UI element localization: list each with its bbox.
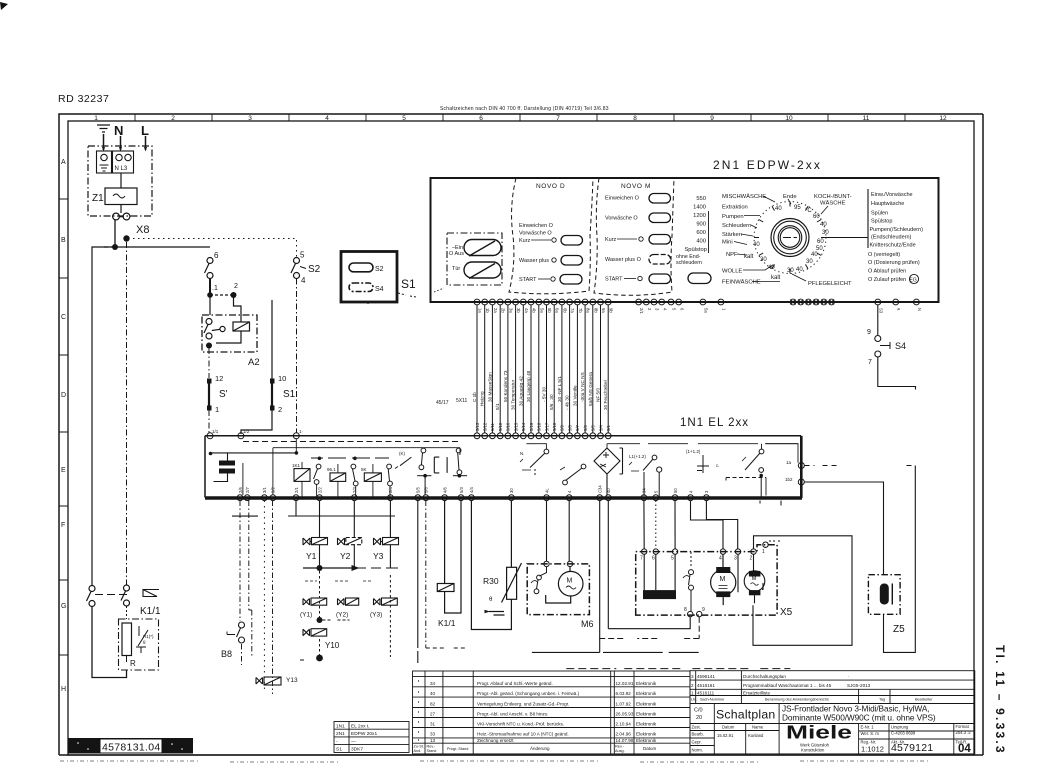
svg-text:2N1 EDPW-2xx: 2N1 EDPW-2xx	[713, 158, 822, 172]
wire Z1 to plug	[120, 205, 122, 214]
pin 5a	[700, 299, 706, 305]
svg-text:S2: S2	[308, 264, 321, 275]
X5 loop right	[753, 536, 852, 646]
svg-text:Wasser plus O: Wasser plus O	[605, 257, 642, 263]
EL bottom terminal row	[237, 495, 709, 501]
wire drop 643.9	[643, 501, 645, 550]
left row ticks	[59, 199, 68, 655]
svg-text:1.07.92: 1.07.92	[616, 701, 632, 706]
NOVO M row START + button	[605, 274, 671, 284]
svg-text:2: 2	[691, 683, 694, 688]
svg-text:a: a	[896, 308, 901, 311]
svg-text:Format: Format	[956, 724, 970, 729]
heater resistor body	[122, 623, 132, 656]
heater connector X5 dashed box	[636, 545, 777, 615]
dial to bracket line	[826, 237, 868, 239]
svg-text:N: N	[114, 123, 123, 138]
svg-text:96.1: 96.1	[327, 467, 336, 472]
svg-text:4: 4	[688, 490, 693, 493]
Schaltplan title	[716, 704, 779, 724]
svg-text:Progr.-Abl. geänd. (Schongang: Progr.-Abl. geänd. (Schongang umben. i. …	[477, 691, 580, 696]
revision header row	[414, 745, 657, 754]
NTC R30	[471, 501, 521, 630]
contact d with dot	[417, 448, 431, 495]
svg-text:7: 7	[556, 115, 560, 122]
svg-text:6a: 6a	[555, 308, 560, 313]
svg-text:Spülstop: Spülstop	[871, 219, 892, 225]
svg-text:Datum: Datum	[643, 746, 657, 751]
svg-text:Y1: Y1	[306, 551, 317, 561]
svg-text:8: 8	[633, 115, 637, 122]
svg-text:27: 27	[430, 712, 436, 717]
svg-text:Kurz: Kurz	[605, 237, 617, 243]
svg-text:12.02.91: 12.02.91	[616, 681, 634, 686]
svg-text:4/6: 4/6	[442, 487, 447, 493]
svg-text:1b: 1b	[485, 308, 490, 313]
svg-text:5/1: 5/1	[495, 403, 500, 410]
EL module box	[205, 436, 801, 498]
valve (Y2)	[336, 598, 359, 619]
sheet inner border	[68, 121, 974, 755]
Ein/Aus labels	[449, 245, 464, 257]
svg-text:Y10: Y10	[325, 641, 340, 650]
S1 stub	[368, 293, 416, 305]
svg-text:Ursprung: Ursprung	[891, 725, 909, 730]
revision rows text	[430, 681, 657, 743]
svg-text:WÄSCHE: WÄSCHE	[820, 200, 846, 207]
wire node to S2 contact 6	[104, 246, 210, 248]
svg-text:Kurz: Kurz	[519, 238, 531, 244]
svg-text:Konstruktion: Konstruktion	[801, 748, 825, 753]
dotted lead into panel	[434, 288, 444, 292]
corner scan speck	[0, 2, 8, 10]
svg-text:L1(+1.2): L1(+1.2)	[629, 454, 646, 459]
svg-text:1K1: 1K1	[292, 463, 301, 468]
svg-text:1400: 1400	[693, 205, 706, 211]
valve (Y1)	[300, 598, 327, 619]
svg-text:5: 5	[671, 556, 674, 562]
valve Y1	[303, 516, 328, 568]
svg-text:Änd.: Änd.	[414, 749, 422, 753]
svg-text:PFLEGELEICHT: PFLEGELEICHT	[808, 281, 852, 287]
svg-text:Extraktion: Extraktion	[722, 205, 748, 211]
pin labels top	[478, 308, 614, 313]
pin to S4	[875, 299, 881, 305]
svg-text:1b2: 1b2	[785, 477, 793, 482]
svg-text:5/6 . 30: 5/6 . 30	[549, 394, 554, 410]
wire S2-4 down to EL	[296, 279, 298, 434]
svg-text:5/6: 5/6	[424, 487, 429, 493]
svg-text:—: —	[351, 740, 356, 745]
svg-text:2/2: 2/2	[317, 487, 322, 493]
svg-text:Dominante W500/W90C (mit u. oh: Dominante W500/W90C (mit u. ohne VPS)	[782, 713, 936, 723]
svg-text:Einweichen O: Einweichen O	[519, 223, 554, 229]
svg-text:Spülen: Spülen	[871, 211, 888, 217]
svg-text:8a: 8a	[586, 308, 591, 313]
contact e with bar	[453, 448, 467, 477]
svg-text:1/1: 1/1	[212, 429, 219, 434]
svg-text:3: 3	[691, 674, 694, 679]
programmer connector pin row	[474, 299, 611, 305]
terminal block N L	[113, 151, 134, 173]
svg-text:S2: S2	[375, 266, 384, 273]
svg-text:°C: °C	[805, 208, 812, 214]
relay coil 9K1	[327, 467, 346, 481]
svg-text:Y3: Y3	[373, 551, 384, 561]
svg-text:1: 1	[215, 405, 219, 414]
bottom scan noise dashes	[60, 761, 930, 762]
svg-text:Einweichen O: Einweichen O	[605, 196, 640, 202]
wire drop a	[417, 501, 419, 664]
svg-text:5: 5	[672, 308, 677, 311]
svg-text:2: 2	[278, 405, 282, 414]
button Ein/Aus	[464, 240, 501, 257]
svg-text:2a: 2a	[493, 308, 498, 313]
svg-text:30: 30	[760, 257, 767, 263]
switch S1' pins 10-2	[270, 374, 296, 414]
contact c	[387, 464, 393, 486]
label (1+1.2) b + crystal	[686, 449, 720, 473]
svg-text:Wasser plus: Wasser plus	[519, 258, 549, 264]
svg-text:Schleudern: Schleudern	[722, 223, 751, 229]
svg-text:(Y3): (Y3)	[370, 612, 382, 619]
wire drop b dash-dot	[425, 501, 427, 649]
svg-text:5/5: 5/5	[416, 487, 421, 493]
svg-text:5/18: 5/18	[537, 422, 542, 431]
svg-text:.1: .1	[212, 285, 218, 292]
svg-text:82: 82	[430, 701, 436, 706]
Y10 bottom node	[316, 639, 323, 661]
svg-text:Knitterschutz/Ende: Knitterschutz/Ende	[870, 243, 916, 249]
svg-text:Heizng: Heizng	[480, 391, 485, 406]
plug S4	[875, 336, 890, 358]
svg-text:E: E	[61, 467, 66, 474]
svg-text:30: 30	[787, 268, 794, 274]
svg-text:40: 40	[820, 222, 827, 228]
doc header row	[691, 698, 933, 702]
wire plug to node	[114, 220, 116, 247]
svg-text:START: START	[605, 277, 623, 283]
svg-text:Y2: Y2	[340, 551, 351, 561]
svg-text:3DK7: 3DK7	[351, 747, 363, 753]
svg-text:3: 3	[655, 308, 660, 311]
svg-text:1a: 1a	[786, 460, 792, 465]
svg-text:Progr. Ablauf und Schl.-Werte: Progr. Ablauf und Schl.-Werte geänd.	[477, 681, 553, 686]
wire S4 down right	[878, 357, 916, 390]
sheet outer border	[59, 114, 983, 755]
svg-text:Durchschaltungsplan: Durchschaltungsplan	[743, 674, 786, 679]
status list bracket	[867, 189, 869, 248]
pin far right	[914, 299, 920, 305]
svg-text:13: 13	[430, 738, 436, 743]
svg-text:O (Dosierung prüfen): O (Dosierung prüfen)	[868, 260, 920, 266]
drain pump motor	[711, 554, 736, 605]
svg-text:X8: X8	[136, 224, 149, 236]
dashed drop Y1	[319, 571, 321, 620]
svg-text:Elektronik: Elektronik	[636, 722, 657, 727]
KOCH-/BUNTWAESCHE label	[814, 194, 852, 207]
svg-text:5/16: 5/16	[506, 422, 511, 431]
svg-text:2: 2	[750, 556, 753, 562]
valve common node	[303, 565, 398, 571]
EG circle mark	[909, 274, 918, 283]
top column numbers	[94, 115, 947, 122]
svg-text:5a/b NS Genera: 5a/b NS Genera	[588, 372, 593, 406]
svg-text:4516161: 4516161	[697, 683, 715, 688]
svg-text:1N1 EL 2xx: 1N1 EL 2xx	[680, 417, 749, 429]
relay coil 5K1	[361, 467, 381, 481]
svg-text:1N1: 1N1	[336, 724, 345, 730]
svg-text:Norm.: Norm.	[692, 748, 703, 753]
contact a	[314, 464, 322, 484]
svg-text:O Aus: O Aus	[449, 251, 464, 257]
valve Y13	[256, 677, 298, 685]
svg-text:schleudern: schleudern	[676, 260, 702, 266]
svg-text:5/14: 5/14	[521, 422, 526, 431]
svg-text:4: 4	[662, 308, 667, 311]
document info table	[690, 671, 975, 754]
Ein/Aus-Tuer dash-dot box	[447, 233, 502, 285]
svg-text:Pumpen(/Schleudern): Pumpen(/Schleudern)	[870, 227, 924, 233]
svg-text:2: 2	[647, 308, 652, 311]
svg-text:2/6: 2/6	[238, 487, 243, 493]
svg-text:5b: 5b	[547, 308, 552, 313]
svg-text:O Ablauf prüfen: O Ablauf prüfen	[868, 269, 906, 275]
wire pins 8/9 return	[608, 501, 690, 629]
svg-text:12: 12	[215, 374, 223, 383]
door switch S2 contact 6	[205, 251, 220, 279]
svg-text:8: 8	[684, 607, 687, 613]
Miele logo	[786, 723, 852, 753]
svg-text:3/1: 3/1	[262, 487, 267, 493]
mains earth symbol	[97, 125, 110, 152]
wire X8 dotted to S2 contact 5	[133, 239, 297, 258]
A2 junction dot	[206, 343, 212, 349]
scan dashes above second row	[305, 580, 373, 582]
svg-text:1a: 1a	[478, 308, 483, 313]
machine description	[782, 704, 936, 723]
valve Y2	[338, 516, 362, 568]
svg-text:6: 6	[679, 308, 684, 311]
svg-text:Stärken: Stärken	[722, 232, 742, 238]
svg-text:O Zulauf prüfen: O Zulauf prüfen	[868, 277, 906, 283]
X5 bottom pins 8 9	[688, 611, 702, 616]
svg-text:4b: 4b	[532, 308, 537, 313]
ribbon wires programmer to EL	[477, 305, 608, 433]
svg-text:9b: 9b	[609, 308, 614, 313]
ribbon wire name labels	[472, 370, 608, 410]
svg-text:Vorwäsche O: Vorwäsche O	[519, 231, 552, 237]
svg-text:A: A	[61, 159, 66, 166]
svg-text:C-4203 0699: C-4203 0699	[891, 731, 916, 736]
svg-text:Zu-St.: Zu-St.	[414, 745, 424, 749]
svg-text:M: M	[567, 578, 573, 585]
svg-text:Sach-Nummer: Sach-Nummer	[700, 698, 725, 702]
wire S' to EL terminal 1/1	[208, 410, 210, 433]
svg-text:6: 6	[214, 251, 219, 260]
svg-text:θ: θ	[143, 640, 146, 645]
svg-text:45/17: 45/17	[436, 400, 449, 406]
svg-text:5: 5	[654, 490, 659, 493]
heater resistor R dash-dot box	[119, 619, 159, 670]
svg-text:10: 10	[278, 374, 286, 383]
svg-text:Programmablauf Waschautomat 1: Programmablauf Waschautomat 1 ... bis 45	[743, 683, 832, 688]
svg-text:1/2: 1/2	[243, 429, 250, 434]
svg-text:Gepr.: Gepr.	[692, 740, 702, 745]
svg-text:- 4b 30: - 4b 30	[565, 395, 570, 410]
wire EL 1a dashed right	[805, 465, 916, 467]
svg-text:M6: M6	[581, 619, 594, 629]
svg-text:40: 40	[811, 252, 818, 258]
svg-text:C: C	[61, 314, 66, 321]
NOVO D dashed section	[509, 178, 593, 294]
svg-text:3a: 3a	[508, 308, 513, 313]
svg-text:S3: S3	[879, 308, 884, 314]
wire A2 to S'	[208, 348, 210, 378]
svg-text:WOLLE: WOLLE	[722, 269, 742, 275]
component bracket	[434, 457, 447, 473]
bottom-left black label bar	[68, 738, 193, 754]
svg-text:Lfd.: Lfd.	[691, 698, 697, 702]
svg-text:1:1012: 1:1012	[861, 745, 884, 754]
wire S2-6 to node 1	[209, 279, 211, 296]
svg-text:MISCHWÄSCHE: MISCHWÄSCHE	[722, 193, 766, 200]
svg-text:Elektronik: Elektronik	[636, 738, 657, 743]
svg-text:30: 30	[509, 488, 514, 493]
svg-text:Elektronik: Elektronik	[636, 732, 657, 737]
NOVO D row Kurz + button	[519, 236, 583, 246]
svg-text:A2: A2	[248, 357, 260, 368]
svg-text:VKI-Vorschrift NTC u. Kond.-Pr: VKI-Vorschrift NTC u. Kond.-Prüf. berück…	[477, 722, 564, 727]
upper doc rows	[691, 674, 871, 696]
svg-text:4578131.04: 4578131.04	[102, 742, 160, 754]
svg-text:2N1: 2N1	[336, 731, 345, 737]
svg-text:4: 4	[325, 115, 329, 122]
svg-text:7a: 7a	[570, 308, 575, 313]
svg-text:Zust.: Zust.	[692, 725, 701, 730]
contact f	[560, 464, 586, 485]
svg-text:Y13: Y13	[286, 677, 298, 684]
svg-text:6: 6	[652, 556, 655, 562]
svg-text:NF 5/0: NF 5/0	[596, 388, 601, 402]
svg-text:START: START	[519, 277, 537, 283]
valve (Y3)	[370, 598, 397, 619]
program dial	[754, 202, 826, 274]
svg-text:5/19: 5/19	[529, 422, 534, 431]
B8 risers dash-dot	[240, 501, 273, 695]
S1 button S4	[349, 283, 373, 292]
svg-text:30 Laugenp 48: 30 Laugenp 48	[526, 370, 531, 402]
svg-text:5X11: 5X11	[456, 398, 468, 404]
svg-text:3b: 3b	[516, 308, 521, 313]
svg-text:2: 2	[171, 115, 175, 122]
svg-text:6.03.92: 6.03.92	[616, 691, 632, 696]
button Tuer	[464, 262, 501, 279]
svg-text:4: 4	[567, 490, 572, 493]
wire K1/1 loop bottom	[92, 607, 127, 678]
svg-text:RD 32237: RD 32237	[58, 93, 109, 105]
svg-text:04: 04	[958, 743, 971, 755]
M6 thermal contact	[531, 567, 547, 594]
svg-text:C/0: C/0	[694, 708, 703, 714]
EL internal bus wires	[243, 439, 460, 498]
svg-text:4/4: 4/4	[469, 487, 474, 493]
A2 contact	[204, 319, 225, 340]
valve Y10	[303, 629, 340, 650]
valve feed bus	[288, 515, 395, 517]
crossed spare pins	[790, 299, 834, 305]
svg-text:40: 40	[430, 691, 436, 696]
contact N1	[520, 449, 549, 477]
option switch S1 box	[341, 252, 397, 303]
svg-text:30 -NF L 5/1: 30 -NF L 5/1	[557, 376, 562, 402]
svg-text:1·: 1·	[299, 429, 303, 434]
svg-text:5/12: 5/12	[483, 422, 488, 431]
svg-text:NOVO M: NOVO M	[621, 183, 651, 190]
pin spare right	[893, 299, 899, 305]
NOVO M dashed section	[594, 178, 674, 295]
valve Y3	[373, 516, 399, 568]
svg-text:Tag: Tag	[879, 698, 885, 702]
svg-text:2: 2	[234, 283, 238, 290]
svg-text:EL 2xx t.: EL 2xx t.	[351, 724, 370, 730]
svg-text:5/7: 5/7	[575, 425, 580, 431]
svg-text:S1: S1	[336, 747, 342, 753]
wire EL to X5 pin4	[691, 501, 724, 550]
svg-text:- 5V 30: - 5V 30	[542, 386, 547, 402]
svg-text:26.05.93: 26.05.93	[616, 712, 634, 717]
svg-text:M: M	[720, 576, 726, 583]
svg-text:5: 5	[300, 251, 305, 260]
svg-text:Spülstop: Spülstop	[684, 247, 707, 253]
svg-text:1200: 1200	[693, 213, 706, 219]
pin labels bottom	[475, 422, 611, 431]
svg-text:Z5: Z5	[893, 624, 905, 635]
svg-text:Name: Name	[752, 725, 764, 730]
svg-text:2/3: 2/3	[352, 487, 357, 493]
svg-text:Elektronik: Elektronik	[636, 681, 657, 686]
bus risers	[296, 501, 390, 517]
svg-text:30 Feuchtebel: 30 Feuchtebel	[603, 380, 608, 410]
svg-text:5/4: 5/4	[598, 425, 603, 431]
svg-text:Elektronik: Elektronik	[636, 701, 657, 706]
spin speed column	[684, 196, 707, 253]
wire X8 dash-dot down to K1/1 right contact	[126, 242, 128, 585]
svg-text:6b: 6b	[562, 308, 567, 313]
legend table 1N1/2N1/S1	[334, 722, 409, 753]
mains entry dash-dot box	[88, 146, 152, 216]
NOVO M row Vorwaesche + button	[605, 213, 671, 223]
svg-text:4516111: 4516111	[697, 690, 715, 695]
svg-text:6: 6	[479, 115, 483, 122]
X5 top pins	[642, 542, 769, 554]
svg-text:S4: S4	[375, 286, 384, 293]
svg-text:8b: 8b	[593, 308, 598, 313]
spin bracket	[708, 211, 710, 253]
svg-text:33: 33	[430, 732, 436, 737]
NOVO D row Wasser plus + button	[519, 256, 583, 266]
svg-text:Progr.-Stand: Progr.-Stand	[447, 747, 468, 751]
spin speed note ohne Endschleudern	[676, 254, 702, 266]
svg-text:2.04.96: 2.04.96	[616, 732, 632, 737]
level switch B8	[221, 622, 245, 659]
NOVO M row Einweichen + button	[605, 194, 671, 204]
svg-text:(Y1): (Y1)	[300, 612, 312, 619]
A2 relay coil	[216, 296, 250, 343]
svg-text:Miele: Miele	[786, 723, 852, 743]
drawing number cell	[891, 725, 916, 745]
Z5 return loop	[884, 466, 916, 653]
